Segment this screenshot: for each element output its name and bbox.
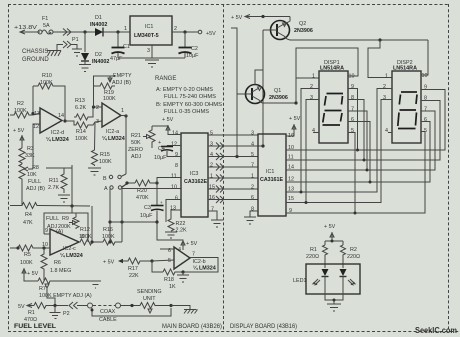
svg-text:R2: R2 [17, 101, 24, 107]
svg-text:LM340T-5: LM340T-5 [134, 33, 159, 39]
svg-text:6: 6 [351, 117, 354, 123]
svg-text:100K: 100K [103, 96, 116, 102]
svg-text:IC2-a: IC2-a [106, 129, 119, 135]
svg-text:IC2-b: IC2-b [193, 259, 206, 265]
svg-text:2: 2 [251, 185, 254, 191]
svg-text:100K: 100K [20, 260, 33, 266]
svg-text:10K: 10K [27, 172, 37, 178]
svg-text:10µF: 10µF [154, 155, 167, 161]
svg-text:MAIN BOARD (43B26): MAIN BOARD (43B26) [162, 324, 222, 330]
svg-text:2: 2 [174, 26, 177, 32]
svg-text:10: 10 [422, 73, 428, 79]
svg-text:10µF: 10µF [140, 213, 153, 219]
svg-text:+13.8V: +13.8V [14, 25, 38, 31]
svg-text:1K: 1K [169, 284, 176, 290]
svg-text:¼ LM324: ¼ LM324 [46, 136, 69, 143]
svg-text:¼ LM324: ¼ LM324 [60, 252, 83, 259]
svg-text:2.2K: 2.2K [176, 228, 187, 234]
svg-text:SENDING: SENDING [137, 289, 162, 295]
svg-text:2N3906: 2N3906 [294, 28, 313, 34]
svg-text:2N3906: 2N3906 [269, 95, 288, 101]
svg-text:6: 6 [175, 196, 178, 202]
svg-text:10: 10 [349, 74, 355, 80]
svg-text:1: 1 [385, 74, 388, 80]
svg-text:+ 5V: + 5V [162, 117, 174, 123]
svg-text:ADJ (B): ADJ (B) [26, 186, 45, 192]
svg-text:R8: R8 [32, 165, 39, 171]
svg-text:R1: R1 [310, 247, 317, 253]
svg-text:R14: R14 [76, 129, 86, 135]
svg-text:C2: C2 [191, 46, 198, 52]
svg-text:1: 1 [210, 174, 213, 180]
svg-text:10µF: 10µF [186, 53, 199, 59]
svg-text:¼ LM324: ¼ LM324 [193, 265, 216, 272]
svg-text:220Ω: 220Ω [306, 254, 319, 260]
svg-text:2: 2 [383, 84, 386, 90]
svg-text:R5: R5 [24, 252, 31, 258]
svg-text:14: 14 [172, 131, 178, 137]
svg-text:R11: R11 [49, 178, 59, 184]
svg-text:7: 7 [192, 252, 195, 258]
svg-text:IC1: IC1 [145, 24, 153, 30]
svg-text:3: 3 [251, 131, 254, 137]
svg-text:100K: 100K [75, 136, 88, 142]
svg-text:50K: 50K [131, 140, 141, 146]
svg-text:4: 4 [312, 128, 315, 134]
svg-text:CHASSIS: CHASSIS [22, 49, 48, 55]
svg-text:3: 3 [96, 119, 99, 125]
svg-text:C3: C3 [144, 205, 151, 211]
svg-text:2: 2 [310, 84, 313, 90]
svg-text:6.2K: 6.2K [75, 105, 86, 111]
svg-text:R16: R16 [103, 227, 113, 233]
svg-text:IN4002: IN4002 [90, 22, 107, 28]
svg-text:R4: R4 [25, 212, 32, 218]
svg-text:5: 5 [351, 128, 354, 134]
svg-text:6: 6 [251, 195, 254, 201]
svg-text:+ 5V: + 5V [324, 224, 336, 230]
svg-text:FUEL LEVEL: FUEL LEVEL [14, 324, 56, 330]
svg-text:2: 2 [210, 163, 213, 169]
svg-text:14: 14 [58, 113, 64, 119]
svg-text:470Ω: 470Ω [24, 317, 37, 323]
svg-text:+ 5V: + 5V [27, 271, 39, 277]
svg-text:R6: R6 [54, 260, 61, 266]
svg-text:+ 5V: + 5V [289, 116, 301, 122]
svg-text:+ 5V: + 5V [103, 260, 115, 266]
svg-text:4: 4 [385, 128, 388, 134]
svg-text:B: EMPTY 60-300 OHMS: B: EMPTY 60-300 OHMS [156, 102, 222, 108]
svg-text:9: 9 [351, 84, 354, 90]
svg-text:D1: D1 [95, 15, 102, 21]
svg-text:+ 5V: + 5V [186, 241, 198, 247]
svg-text:COAX: COAX [100, 309, 116, 315]
svg-text:IC2-c: IC2-c [63, 246, 76, 252]
svg-text:A: A [104, 186, 108, 192]
svg-text:15: 15 [209, 185, 215, 191]
svg-text:+5V: +5V [206, 31, 216, 37]
svg-text:13: 13 [34, 111, 40, 117]
svg-text:¼ LM324: ¼ LM324 [102, 135, 125, 142]
svg-text:UNIT: UNIT [143, 296, 156, 302]
svg-text:P2: P2 [63, 311, 70, 317]
svg-text:+ 5V: + 5V [231, 15, 243, 21]
svg-text:D2: D2 [95, 52, 102, 58]
svg-text:IC3: IC3 [190, 171, 198, 177]
svg-text:FULL 0-35 OHMS: FULL 0-35 OHMS [164, 109, 209, 115]
svg-text:R7: R7 [39, 286, 46, 292]
svg-text:4: 4 [210, 152, 213, 158]
svg-text:5: 5 [210, 131, 213, 137]
svg-text:3: 3 [310, 95, 313, 101]
svg-text:R12: R12 [80, 227, 90, 233]
svg-text:FULL 75-240 OHMS: FULL 75-240 OHMS [164, 94, 216, 100]
svg-text:CA3161E: CA3161E [260, 177, 283, 183]
svg-text:47µF: 47µF [110, 56, 123, 62]
svg-text:C4: C4 [158, 146, 165, 152]
svg-text:7: 7 [211, 207, 214, 213]
svg-text:6: 6 [424, 117, 427, 123]
svg-text:FULL: FULL [46, 216, 59, 222]
svg-text:8: 8 [351, 95, 354, 101]
svg-text:11: 11 [171, 174, 177, 180]
svg-text:R21: R21 [131, 133, 141, 139]
svg-text:1: 1 [121, 108, 124, 114]
svg-text:1: 1 [312, 74, 315, 80]
svg-text:R15: R15 [100, 152, 110, 158]
svg-text:7: 7 [424, 107, 427, 113]
svg-text:4: 4 [178, 247, 181, 253]
svg-text:10: 10 [171, 185, 177, 191]
svg-text:R9: R9 [62, 216, 69, 222]
svg-text:R13: R13 [75, 98, 85, 104]
svg-text:B: B [103, 176, 107, 182]
svg-text:RANGE: RANGE [155, 76, 176, 82]
svg-text:R22: R22 [176, 221, 186, 227]
svg-text:Q2: Q2 [299, 21, 306, 27]
svg-text:220Ω: 220Ω [347, 254, 360, 260]
svg-text:9: 9 [45, 228, 48, 234]
svg-text:47K: 47K [23, 220, 33, 226]
svg-text:15: 15 [288, 196, 294, 202]
svg-text:5: 5 [168, 258, 171, 264]
svg-text:3: 3 [210, 142, 213, 148]
svg-text:12: 12 [33, 124, 39, 130]
svg-text:5A: 5A [43, 23, 50, 29]
svg-text:DISPLAY BOARD (43B16): DISPLAY BOARD (43B16) [230, 324, 297, 330]
svg-text:CABLE: CABLE [99, 317, 117, 323]
svg-text:ADJ (B): ADJ (B) [112, 80, 131, 86]
svg-text:3: 3 [383, 95, 386, 101]
svg-text:EMPTY: EMPTY [113, 73, 132, 79]
svg-text:LED1: LED1 [293, 278, 307, 284]
svg-text:2: 2 [96, 105, 99, 111]
svg-text:A: EMPTY 0-20 OHMS: A: EMPTY 0-20 OHMS [156, 87, 213, 93]
svg-text:CA3162E: CA3162E [184, 179, 207, 185]
svg-text:200K: 200K [58, 224, 71, 230]
svg-text:P1: P1 [72, 37, 79, 43]
svg-text:R2: R2 [350, 247, 357, 253]
svg-text:100K: 100K [99, 159, 112, 165]
svg-text:100K EMPTY ADJ (A): 100K EMPTY ADJ (A) [39, 293, 92, 299]
svg-text:IC2-d: IC2-d [51, 130, 64, 136]
svg-text:R17: R17 [128, 266, 138, 272]
svg-text:+: + [160, 200, 163, 205]
svg-text:ZERO: ZERO [128, 147, 143, 153]
svg-text:22K: 22K [129, 273, 139, 279]
svg-text:1.8 MEG: 1.8 MEG [50, 268, 71, 274]
svg-text:8: 8 [251, 207, 254, 213]
svg-text:5: 5 [251, 152, 254, 158]
svg-text:R10: R10 [42, 73, 52, 79]
svg-text:8: 8 [175, 163, 178, 169]
svg-text:9: 9 [175, 152, 178, 158]
svg-text:2.7K: 2.7K [48, 185, 59, 191]
svg-text:IC1: IC1 [266, 169, 274, 175]
svg-text:ADJ: ADJ [131, 154, 141, 160]
svg-text:SeekIC.com: SeekIC.com [415, 325, 457, 335]
svg-text:FULL: FULL [28, 179, 41, 185]
svg-text:7: 7 [251, 163, 254, 169]
svg-text:3: 3 [147, 48, 150, 54]
svg-text:5V: 5V [18, 304, 25, 310]
svg-text:C1: C1 [123, 44, 130, 50]
svg-text:R18: R18 [164, 277, 174, 283]
svg-text:R1: R1 [28, 310, 35, 316]
svg-text:+ 5V: + 5V [13, 128, 25, 134]
svg-text:GROUND: GROUND [22, 57, 49, 63]
svg-text:7: 7 [351, 107, 354, 113]
svg-text:16: 16 [209, 195, 215, 201]
svg-text:1: 1 [251, 174, 254, 180]
svg-text:1: 1 [124, 26, 127, 32]
svg-text:F1: F1 [42, 16, 48, 22]
svg-text:470K: 470K [136, 195, 149, 201]
svg-text:4: 4 [251, 142, 254, 148]
svg-text:Q1: Q1 [274, 88, 281, 94]
svg-text:IN4002: IN4002 [92, 59, 109, 65]
